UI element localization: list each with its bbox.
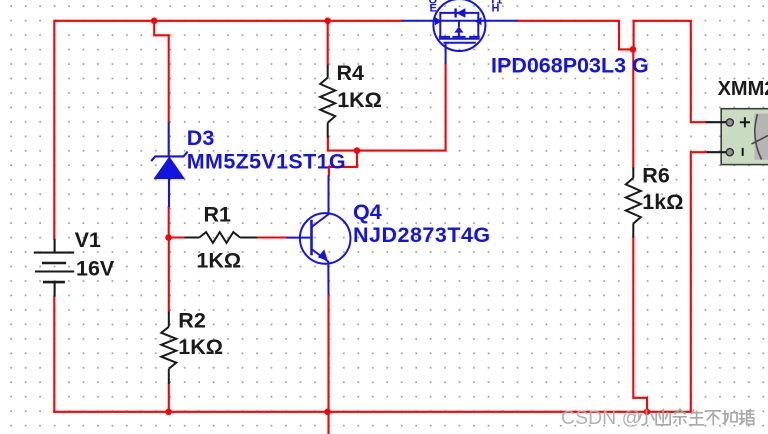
zener diode D3 [151,122,187,207]
watermark CSDN @xiaoyou-yusheng-bujiatang [561,407,754,429]
XMM2 plus terminal lead [706,121,727,123]
XMM2 display [755,114,768,160]
MOSFET left channel contact [439,21,441,36]
svg-text:1KΩ: 1KΩ [196,248,241,272]
wire XMM2 minus down to bottom rail [691,152,707,412]
wire junction C down to R6 top [632,49,634,167]
junction A (zener node) [165,234,172,241]
p-MOSFET U1 IPD068P03L3 [402,0,517,64]
MOSFET source-drain horizontal lead [402,20,517,22]
svg-text:R2: R2 [178,308,206,332]
wire D3 branch jog from top rail [154,21,169,123]
junction bottom rail / Q4 emitter [324,409,331,416]
XMM2 minus sign (vertical tick) [742,148,744,156]
resistor R4 [320,65,335,138]
wire R4 bottom to node B dot [328,138,357,151]
MOSFET middle (body) contact [458,21,460,27]
junction bottom rail / R6 [644,409,651,416]
Q4 collector [312,175,329,227]
junction top rail / R4 [324,18,331,25]
MOSFET body diode triangle [456,8,465,18]
wire node A to R1 left [169,236,185,238]
MOSFET body arrow (middle up triangle) [454,26,463,32]
wire R1 right to Q4 base [257,236,286,238]
battery V1 [34,239,74,297]
svg-text:IPD068P03L3 G: IPD068P03L3 G [491,53,649,77]
MOSFET left arrow [435,17,442,25]
MOSFET right arrow [475,17,482,25]
MOSFET gate plates [439,38,480,40]
resistor R1 [185,232,258,243]
wire junction C up and over to XMM2 plus [633,21,706,122]
wire R4 top from rail [327,21,329,65]
XMM2 minus terminal lead [707,151,727,153]
wire R2 bottom to bottom rail [168,384,170,412]
wire bottom rail (V1- to XMM2 minus) [54,411,691,413]
svg-text:1KΩ: 1KΩ [178,335,223,359]
svg-text:1KΩ: 1KΩ [337,88,382,112]
svg-text:R6: R6 [642,163,670,187]
wire Q4 emitter to bottom rail, continues past image edge [327,294,329,434]
svg-text:NJD2873T4G: NJD2873T4G [353,223,491,247]
multimeter XMM2 [706,109,768,165]
svg-text:E: E [430,3,437,15]
svg-text:XMM2: XMM2 [718,78,768,100]
svg-text:R1: R1 [204,203,232,227]
svg-text:H: H [492,3,500,15]
wire D3 cathode-lead to node A [168,207,170,238]
resistor R2 [161,312,176,384]
wire node B down-jog to Q4 collector [329,151,357,176]
Q4 emitter arrowhead [318,249,328,261]
Q4 emitter [312,249,329,295]
wire node B to MOSFET gate [357,64,446,151]
MOSFET body diode cathode bar [454,8,456,17]
svg-text:R4: R4 [337,61,365,85]
junction C (drain node) [630,46,637,53]
resistor R6 [626,167,641,237]
Q4 base lead [287,237,311,239]
svg-text:MM5Z5V1ST1G: MM5Z5V1ST1G [187,150,346,174]
wire node A down to R2 top [168,238,170,312]
MOSFET right channel contact [477,21,479,36]
svg-text:Q4: Q4 [353,200,382,224]
MOSFET body diode link [440,13,478,21]
wire V1 minus to bottom rail [53,296,55,411]
transistor Q4 (NPN) [287,175,351,294]
wire top rail left (V1+ to MOSFET) [54,21,402,239]
junction top rail / D3 branch [151,18,158,25]
svg-text:D3: D3 [187,126,215,150]
MOSFET gate pin [445,43,447,64]
Q4 base bar [310,220,313,255]
XMM2 plus sign [740,117,750,127]
svg-text:1kΩ: 1kΩ [642,190,683,214]
wire R6 bottom jog to bottom rail [633,238,647,412]
junction B (gate node) [354,147,361,154]
svg-text:V1: V1 [75,228,101,252]
svg-text:CSDN @: CSDN @ [561,407,641,429]
svg-text:16V: 16V [76,257,115,281]
junction bottom rail / R2 [165,409,172,416]
wire MOSFET drain to junction C [517,21,633,50]
